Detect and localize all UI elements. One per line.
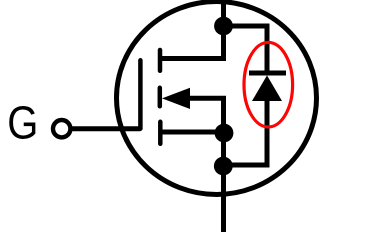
gate terminal circle (53, 120, 70, 137)
body arrow (points to channel) (162, 88, 190, 109)
node drain junction (214, 17, 233, 36)
diode D1 anode triangle (252, 75, 282, 101)
gate electrode bar (138, 60, 143, 128)
svg-text:G: G (7, 98, 38, 149)
channel segment middle (body) (158, 88, 163, 107)
diode D1 cathode bar (249, 71, 286, 76)
wire main source/drain vertical (221, 98, 226, 232)
wire source segment to node (162, 130, 224, 135)
node source junction upper (215, 124, 234, 143)
wire drain lead top (221, 0, 226, 26)
transistor envelope circle (117, 2, 317, 195)
wire gate lead (71, 126, 141, 131)
wire diode anode to source node (223, 100, 267, 165)
wire drain to diode cathode (224, 26, 268, 73)
channel segment bottom (source) (158, 122, 163, 144)
wire body arrow to source node (190, 98, 224, 133)
wire drain to top channel segment (161, 26, 224, 59)
body diode highlight ellipse (244, 42, 293, 127)
node source junction lower (214, 157, 233, 176)
channel segment top (drain) (158, 50, 163, 71)
